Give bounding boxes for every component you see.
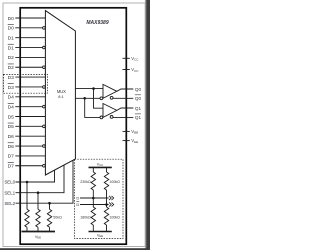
pin VEE right xyxy=(123,138,139,144)
resistor R6 180k xyxy=(80,198,95,232)
wire Q0B line xyxy=(113,97,133,99)
pin Q1 xyxy=(135,106,142,111)
svg-text:D2: D2 xyxy=(8,55,15,61)
ground bar VEE right xyxy=(89,232,112,239)
select input SEL0 xyxy=(4,170,54,185)
svg-text:D2: D2 xyxy=(8,65,15,71)
resistor R1 pulldown xyxy=(25,182,29,232)
svg-text:VCC: VCC xyxy=(131,56,139,62)
input pin D1 xyxy=(8,36,46,42)
svg-text:VEE: VEE xyxy=(35,235,41,240)
svg-text:D3: D3 xyxy=(8,85,15,91)
svg-text:VEE: VEE xyxy=(131,138,138,144)
wire DB input fail-safe xyxy=(76,201,113,207)
svg-text:50kΩ: 50kΩ xyxy=(53,216,62,220)
select input SEL2 xyxy=(4,160,73,206)
svg-text:8:1: 8:1 xyxy=(58,94,63,99)
input pin D3B xyxy=(8,84,46,91)
input pin D6B xyxy=(8,143,46,150)
svg-text:MAX9389: MAX9389 xyxy=(86,20,108,26)
svg-text:D0: D0 xyxy=(8,26,15,32)
svg-text:Q1: Q1 xyxy=(135,106,142,111)
svg-text:D1: D1 xyxy=(8,45,15,51)
device outline U1 xyxy=(20,8,126,244)
output buffer B1 xyxy=(100,84,133,99)
svg-text:D: D xyxy=(76,196,79,201)
pin Q0B xyxy=(135,95,142,101)
resistor R5 100k xyxy=(104,167,120,204)
svg-text:100kΩ: 100kΩ xyxy=(109,180,120,184)
input pin D0 xyxy=(8,16,46,22)
svg-text:D4: D4 xyxy=(8,95,15,101)
input pin D5B xyxy=(8,123,46,130)
resistor R2 pulldown xyxy=(36,193,40,232)
input pin D0B xyxy=(8,25,46,32)
svg-text:SEL2: SEL2 xyxy=(4,201,15,206)
wire D input fail-safe xyxy=(76,196,113,201)
wire drop to buffer2 true input xyxy=(94,89,104,109)
fail-safe input circuit box xyxy=(75,159,123,238)
input pin D2 xyxy=(8,55,46,61)
pin Q1B xyxy=(135,114,142,120)
svg-text:D5: D5 xyxy=(8,114,15,120)
wire mux output complement xyxy=(75,97,100,99)
input pin D2B xyxy=(8,64,46,71)
svg-text:D1: D1 xyxy=(8,36,15,42)
svg-text:180kΩ: 180kΩ xyxy=(80,215,91,219)
svg-text:D4: D4 xyxy=(8,104,15,110)
input pin D4B xyxy=(8,103,46,110)
svg-text:Q1: Q1 xyxy=(135,115,142,120)
input pin D5 xyxy=(8,114,46,120)
wire mux output true xyxy=(75,88,103,90)
svg-text:D6: D6 xyxy=(8,134,15,140)
mux U2 8:1 xyxy=(45,11,75,175)
page frame xyxy=(3,3,145,247)
svg-text:SEL1: SEL1 xyxy=(4,190,15,195)
svg-text:VBB: VBB xyxy=(131,129,138,135)
wire Q1B line xyxy=(113,116,133,118)
pin Q0 xyxy=(135,87,142,92)
node junction on true output xyxy=(92,87,95,90)
pin VBB xyxy=(123,129,139,135)
svg-text:SEL0: SEL0 xyxy=(4,180,15,185)
input pin D6 xyxy=(8,134,46,140)
svg-text:Q0: Q0 xyxy=(135,96,142,101)
resistor R7 100k xyxy=(104,205,120,232)
svg-text:VCC: VCC xyxy=(131,67,139,73)
svg-text:VCC: VCC xyxy=(97,162,104,167)
svg-text:D: D xyxy=(76,202,79,207)
resistor R3 pulldown xyxy=(47,203,62,231)
svg-text:VEE: VEE xyxy=(97,234,103,239)
input pin D7B xyxy=(8,162,46,169)
input pin D3 xyxy=(8,75,46,81)
pin VCC second xyxy=(123,67,140,73)
input pin D4 xyxy=(8,95,46,101)
pin VCC top xyxy=(123,56,140,62)
resistor R4 230k xyxy=(80,167,95,198)
wire drop to buffer2 complement input xyxy=(85,98,101,117)
VCC rail in fail-safe box xyxy=(89,162,112,167)
svg-text:100kΩ: 100kΩ xyxy=(109,215,120,219)
svg-text:D7: D7 xyxy=(8,164,15,170)
input pin D1B xyxy=(8,44,46,51)
svg-text:D6: D6 xyxy=(8,144,15,150)
svg-text:D3: D3 xyxy=(8,75,15,81)
input pin D7 xyxy=(8,154,46,160)
svg-text:230kΩ: 230kΩ xyxy=(80,180,91,184)
svg-text:D0: D0 xyxy=(8,16,15,22)
svg-text:D7: D7 xyxy=(8,154,15,160)
ground bar VEE left xyxy=(22,232,56,240)
select input SEL1 xyxy=(4,165,64,195)
output buffer B2 xyxy=(100,104,133,119)
svg-text:Q0: Q0 xyxy=(135,87,142,92)
svg-text:D5: D5 xyxy=(8,124,15,130)
fail-safe highlight box around D3 pair xyxy=(4,74,48,93)
node junction on complement output xyxy=(83,97,86,100)
